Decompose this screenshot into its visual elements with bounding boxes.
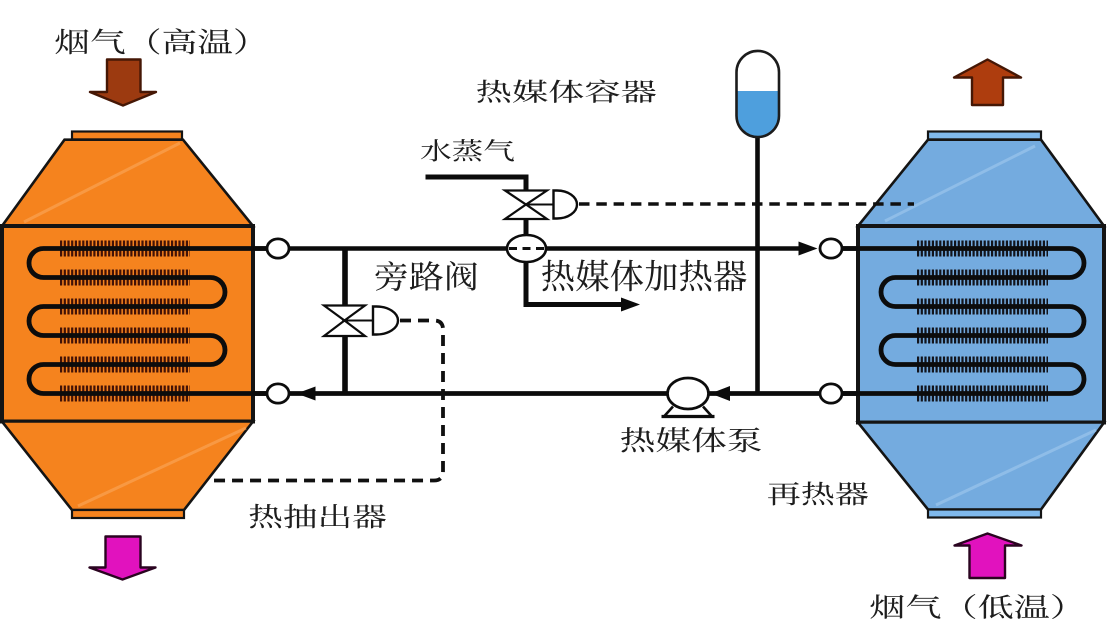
label 烟气（低温） flue gas low temp	[870, 594, 1062, 619]
bypass valve body (hourglass)	[324, 306, 374, 337]
left vessel top flange	[267, 239, 289, 258]
steam valve actuator (D)	[554, 191, 578, 219]
label 水蒸气 steam	[421, 139, 514, 162]
three-way mixing valve (heat medium heater)	[507, 235, 546, 262]
top pipe (hot medium supply line)	[253, 246, 858, 251]
dark red flue-gas outlet arrow (top right, up)	[954, 60, 1021, 106]
left coil fins	[60, 249, 190, 394]
label 热媒体加热器 heat medium heater	[542, 260, 747, 292]
magenta flue-gas inlet arrow (bottom right, up)	[955, 534, 1022, 579]
left vessel body	[2, 226, 253, 422]
bottom pipe (hot medium return line)	[253, 391, 858, 396]
right reheater vessel top lip	[928, 132, 1041, 140]
right vessel top flange	[820, 239, 842, 258]
dark red flue-gas inlet arrow (top left, down)	[90, 60, 156, 106]
label 再热器 reheater	[768, 482, 868, 506]
right vessel bottom flange	[820, 384, 842, 403]
magenta flue-gas outlet arrow (bottom left, down)	[90, 537, 156, 580]
dashed control line valve to reheater	[579, 202, 914, 205]
steam valve outlet stub	[524, 218, 529, 238]
steam valve body (hourglass)	[505, 191, 555, 220]
dashed line through three-way valve	[500, 247, 554, 250]
heater outlet stub with arrow	[526, 261, 640, 312]
left vessel bottom funnel	[2, 422, 253, 511]
bypass line (vertical)	[342, 249, 348, 394]
arrow into right vessel	[799, 242, 818, 256]
steam inlet line	[426, 177, 527, 191]
right coil fins	[917, 249, 1048, 394]
left vessel top hood (trapezoid)	[2, 140, 253, 226]
label 热抽出器 heat extractor	[250, 504, 387, 529]
left coil tube (heat exchanger coil)	[29, 249, 268, 394]
heat medium container (capsule)	[737, 51, 780, 137]
right vessel top hood (trapezoid)	[858, 140, 1104, 226]
left vessel bottom lip	[72, 510, 184, 518]
label 热媒体泵 heat medium pump	[621, 427, 761, 453]
label 旁路阀 bypass valve	[376, 261, 478, 291]
right vessel bottom lip	[928, 510, 1041, 518]
right vessel bottom funnel	[858, 423, 1104, 510]
arrow toward left vessel	[297, 387, 316, 401]
heat medium pump	[662, 378, 715, 417]
arrow into pump	[711, 386, 731, 401]
dashed control line bypass valve to heat extractor	[208, 321, 444, 481]
right vessel body	[858, 226, 1104, 423]
bypass valve actuator (D)	[373, 307, 398, 335]
label 热媒体容器 heat medium container	[477, 80, 656, 104]
left heat-exchanger vessel top lip	[72, 132, 182, 140]
right coil tube (reheater coil)	[842, 249, 1085, 394]
label 烟气（高温） flue gas high temp	[55, 28, 245, 54]
heat-medium container stem pipe	[755, 136, 760, 392]
left vessel bottom flange	[267, 384, 289, 403]
